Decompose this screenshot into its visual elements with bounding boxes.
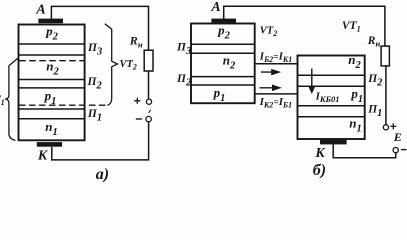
leakage current down arrow <box>309 69 314 93</box>
svg-text:A: A <box>210 0 220 15</box>
VT2 junction P2 upper line <box>191 76 255 78</box>
brace left (VT1 span) <box>5 58 18 140</box>
svg-text:E: E <box>393 130 402 144</box>
junction P2 upper line <box>19 79 85 81</box>
VT2 junction P3 lower line <box>191 52 255 54</box>
plus sign (figure a) <box>134 98 140 104</box>
resistor Rn body (figure a) <box>144 50 153 71</box>
svg-text:б): б) <box>313 162 326 179</box>
anode electrode bar (figure a) <box>38 19 63 24</box>
VT1 junction P2 upper line <box>298 74 365 76</box>
minus terminal circle (figure b) <box>393 148 398 153</box>
junction P3 lower line <box>19 54 85 56</box>
cathode electrode bar (figure a) <box>37 142 62 147</box>
minus sign (figure a) <box>136 118 142 120</box>
resistor Rn body (figure b) <box>381 46 389 66</box>
plus terminal circle (figure b) <box>383 125 388 130</box>
current arrow upper <box>261 70 279 75</box>
minus terminal circle (figure a) <box>146 116 151 121</box>
anode electrode bar (figure b) <box>211 19 236 23</box>
svg-text:K: K <box>314 146 326 161</box>
svg-text:A: A <box>35 3 45 18</box>
wire anode lead and top wire to resistor branch <box>51 6 148 50</box>
cathode electrode bar (figure b) <box>320 140 347 145</box>
wire resistor to plus terminal (figure b) <box>385 66 387 125</box>
VT1 junction P2 lower line <box>298 85 365 87</box>
wire cathode to minus terminal <box>333 144 396 157</box>
plus terminal circle (figure a) <box>146 99 151 104</box>
VT2 junction P2 lower line <box>191 84 255 86</box>
VT1 junction P1 upper line <box>298 105 365 107</box>
minus sign (figure b) <box>401 149 406 151</box>
junction P1 upper line <box>19 108 85 110</box>
small tick between terminals <box>149 110 151 113</box>
dashed split line upper (VT1 boundary) <box>19 60 84 62</box>
VT2 junction P3 upper line <box>191 43 255 45</box>
wire resistor to plus terminal <box>148 71 150 99</box>
npn transistor VT1 stack n2-p1-n1 <box>298 56 365 140</box>
junction P3 upper line <box>19 43 85 45</box>
dashed split line lower (VT2 boundary) <box>19 104 108 106</box>
junction P1 lower line <box>19 118 85 120</box>
wire minus terminal to cathode <box>52 122 149 160</box>
wire anode lead and top wire to resistor branch (figure b) <box>224 6 385 46</box>
pnp transistor VT2 stack p2-n2-p1 <box>191 24 255 104</box>
thyristor stack body p2-n2-p1-n1 <box>19 25 85 141</box>
current arrow lower <box>260 86 280 91</box>
junction P2 lower line <box>19 87 85 89</box>
bridge bottom line between stacks <box>255 93 298 95</box>
bridge top line between stacks <box>255 63 298 65</box>
VT1 junction P1 lower line <box>298 116 365 118</box>
svg-text:K: K <box>37 149 49 164</box>
brace right (VT2 span) <box>105 24 118 106</box>
svg-text:а): а) <box>96 166 109 183</box>
plus sign (figure b) <box>390 123 396 129</box>
